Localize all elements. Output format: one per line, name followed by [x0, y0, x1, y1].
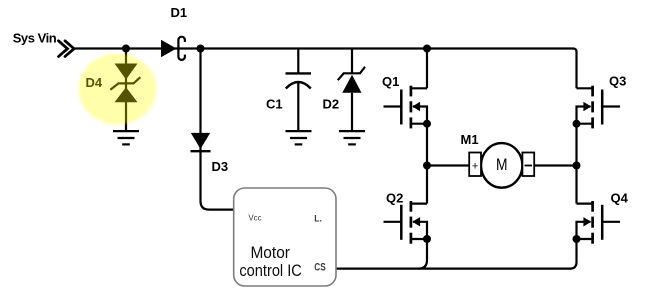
svg-text:Q2: Q2: [386, 190, 403, 205]
svg-text:D1: D1: [171, 5, 188, 20]
svg-text:CS: CS: [314, 261, 325, 273]
svg-text:M1: M1: [461, 132, 479, 147]
svg-text:M: M: [496, 156, 508, 174]
svg-text:Q4: Q4: [611, 190, 629, 205]
svg-text:D2: D2: [323, 97, 340, 112]
svg-text:+: +: [472, 160, 478, 172]
svg-text:Motor: Motor: [250, 243, 290, 262]
svg-text:L.: L.: [314, 214, 322, 225]
svg-text:Vcc: Vcc: [248, 213, 262, 223]
svg-text:Q3: Q3: [609, 74, 626, 89]
svg-text:Q1: Q1: [382, 74, 399, 89]
svg-text:control IC: control IC: [239, 261, 302, 280]
svg-text:Sys Vin: Sys Vin: [13, 31, 57, 46]
svg-text:D3: D3: [212, 159, 229, 174]
svg-text:C1: C1: [266, 97, 283, 112]
